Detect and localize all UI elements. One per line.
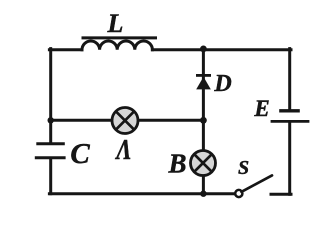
svg-text:Λ: Λ bbox=[115, 134, 132, 166]
lamp A (circle with X) bbox=[112, 108, 138, 134]
inductor L1 core bar bbox=[83, 36, 156, 39]
node (top, diode branch) bbox=[200, 46, 207, 53]
lamp B (circle with X) bbox=[191, 151, 216, 176]
label D bbox=[213, 71, 231, 97]
wire middle vertical (top node through diode to middle node) bbox=[202, 49, 205, 120]
wire right vertical (battery to bottom corner) bbox=[288, 123, 291, 195]
node (left, wire to lamp A) bbox=[48, 117, 54, 123]
svg-text:E: E bbox=[253, 96, 269, 121]
label A bbox=[115, 134, 132, 166]
label L bbox=[107, 9, 124, 38]
capacitor C plates bbox=[35, 144, 66, 158]
wire left vertical (top corner to capacitor) bbox=[49, 49, 52, 143]
label C bbox=[70, 138, 90, 170]
svg-text:C: C bbox=[70, 138, 90, 170]
node (middle, diode/lamp A/lamp B) bbox=[200, 117, 207, 124]
battery E plates bbox=[271, 111, 310, 122]
svg-text:L: L bbox=[107, 9, 124, 38]
svg-text:S: S bbox=[238, 157, 249, 179]
switch S lever bbox=[242, 175, 273, 191]
diode D (cathode bar) bbox=[196, 74, 211, 77]
wire top horizontal (inductor to right corner) bbox=[152, 48, 291, 51]
wire bottom horizontal (left corner to switch pivot) bbox=[49, 192, 236, 195]
node (bottom, lamp B/switch) bbox=[200, 191, 206, 197]
wire top horizontal (left corner to inductor) bbox=[49, 48, 82, 51]
wire right vertical (top corner to battery) bbox=[288, 49, 291, 110]
label S bbox=[238, 157, 249, 179]
label B bbox=[167, 148, 186, 178]
inductor L1 coil bbox=[82, 41, 152, 50]
wire middle horizontal (node to lamp A to node) bbox=[51, 119, 204, 122]
wire bottom right (corner to switch contact) bbox=[271, 193, 291, 196]
wire middle vertical (middle node through lamp B to bottom node) bbox=[202, 120, 205, 193]
svg-text:B: B bbox=[167, 148, 186, 178]
svg-text:D: D bbox=[213, 71, 231, 97]
switch S pivot circle bbox=[235, 190, 242, 197]
diode D (triangle, anode below pointing up) bbox=[196, 77, 211, 90]
label E bbox=[253, 96, 269, 121]
wire left vertical (capacitor to bottom corner) bbox=[49, 159, 52, 194]
